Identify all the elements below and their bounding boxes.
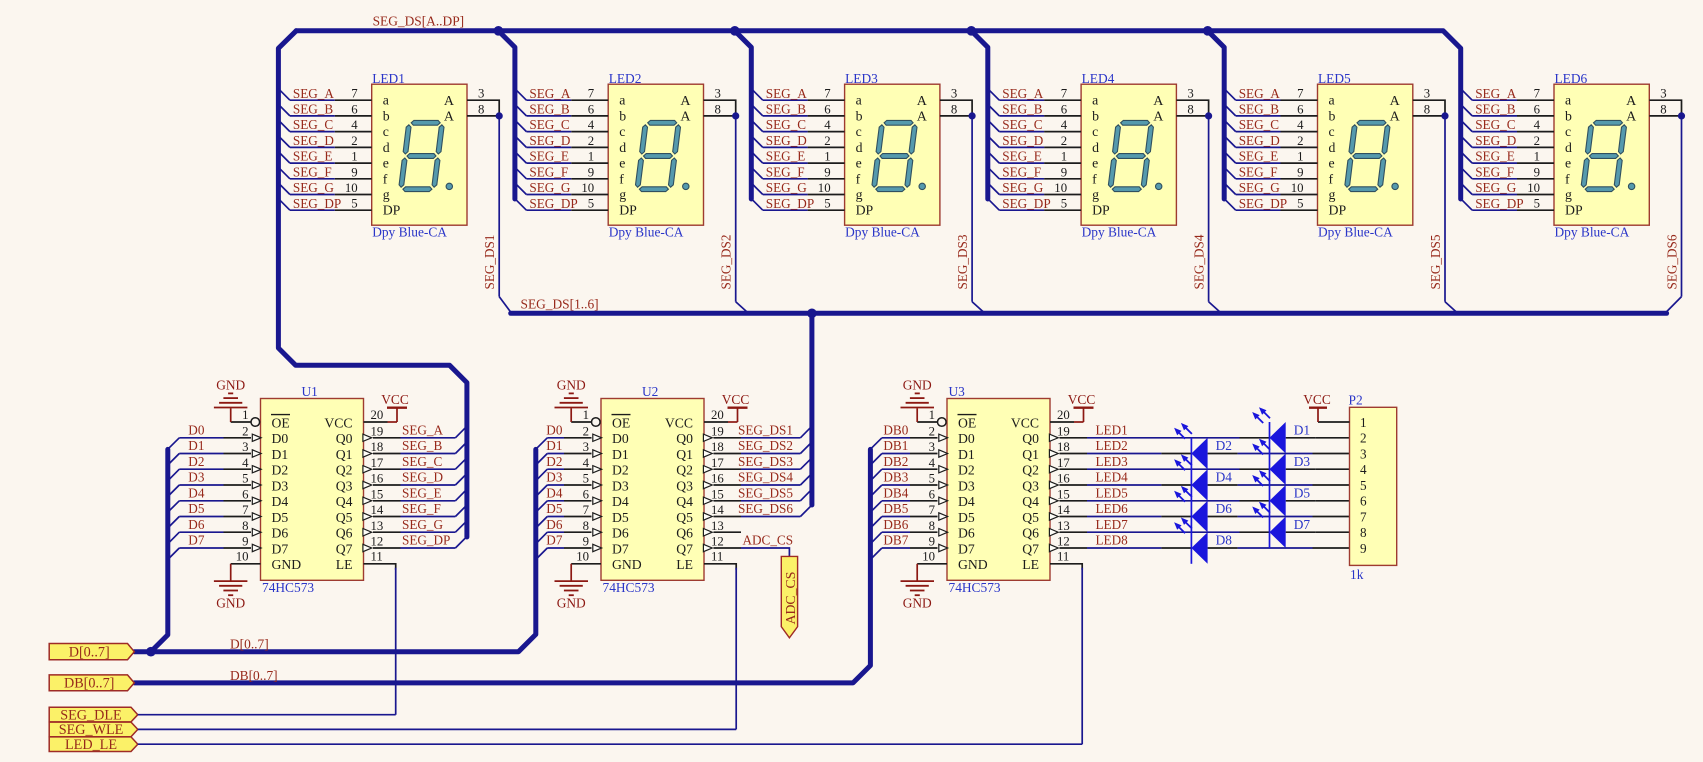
svg-text:D1: D1 xyxy=(188,438,204,453)
svg-text:D4: D4 xyxy=(546,485,563,500)
svg-text:A: A xyxy=(1153,110,1164,125)
svg-text:6: 6 xyxy=(929,487,936,501)
svg-text:10: 10 xyxy=(581,181,594,195)
svg-text:4: 4 xyxy=(351,118,358,132)
svg-text:A: A xyxy=(917,110,928,125)
svg-text:f: f xyxy=(1565,171,1570,186)
svg-text:VCC: VCC xyxy=(722,392,750,407)
svg-text:D5: D5 xyxy=(1294,485,1311,500)
svg-text:SEG_DS6: SEG_DS6 xyxy=(738,501,793,516)
svg-text:d: d xyxy=(1092,140,1099,155)
svg-text:1: 1 xyxy=(1061,150,1067,164)
svg-text:Q4: Q4 xyxy=(1022,494,1039,509)
svg-text:Q0: Q0 xyxy=(336,431,353,446)
svg-text:SEG_DLE: SEG_DLE xyxy=(60,707,121,723)
svg-text:SEG_DS1: SEG_DS1 xyxy=(482,235,497,290)
svg-text:2: 2 xyxy=(351,134,357,148)
svg-text:D7: D7 xyxy=(546,533,563,548)
svg-text:Q5: Q5 xyxy=(676,510,693,525)
svg-text:LED2: LED2 xyxy=(609,71,642,86)
svg-text:D5: D5 xyxy=(188,501,205,516)
svg-text:7: 7 xyxy=(351,87,358,101)
svg-text:SEG_A: SEG_A xyxy=(529,86,571,101)
svg-text:D4: D4 xyxy=(1216,470,1233,485)
svg-text:GND: GND xyxy=(958,557,988,572)
svg-text:LED3: LED3 xyxy=(845,71,878,86)
svg-text:Q3: Q3 xyxy=(336,478,353,493)
svg-text:1k: 1k xyxy=(1350,567,1364,582)
svg-text:4: 4 xyxy=(242,456,249,470)
svg-text:Q3: Q3 xyxy=(676,478,693,493)
svg-text:1: 1 xyxy=(588,150,594,164)
svg-text:SEG_WLE: SEG_WLE xyxy=(59,722,124,738)
svg-text:7: 7 xyxy=(1061,87,1068,101)
svg-text:3: 3 xyxy=(478,87,484,101)
svg-text:GND: GND xyxy=(216,595,245,610)
svg-text:4: 4 xyxy=(1297,118,1304,132)
svg-text:P2: P2 xyxy=(1349,392,1363,407)
svg-text:SEG_DS[1..6]: SEG_DS[1..6] xyxy=(521,296,599,311)
svg-text:D0: D0 xyxy=(958,431,975,446)
svg-text:3: 3 xyxy=(715,87,721,101)
svg-text:D2: D2 xyxy=(546,454,562,469)
svg-text:D0: D0 xyxy=(188,422,205,437)
svg-text:D1: D1 xyxy=(1294,422,1310,437)
svg-text:Dpy Blue-CA: Dpy Blue-CA xyxy=(1555,225,1630,240)
svg-text:10: 10 xyxy=(922,550,935,564)
svg-text:SEG_D: SEG_D xyxy=(293,133,334,148)
svg-text:74HC573: 74HC573 xyxy=(262,580,314,595)
svg-text:SEG_G: SEG_G xyxy=(1475,180,1517,195)
svg-text:LED7: LED7 xyxy=(1096,517,1129,532)
svg-text:SEG_E: SEG_E xyxy=(1002,149,1042,164)
svg-text:VCC: VCC xyxy=(381,392,409,407)
svg-text:2: 2 xyxy=(583,424,589,438)
svg-text:SEG_D: SEG_D xyxy=(1475,133,1516,148)
svg-text:1: 1 xyxy=(1360,415,1367,430)
svg-text:D1: D1 xyxy=(958,447,975,462)
svg-text:SEG_DS5: SEG_DS5 xyxy=(1428,234,1443,289)
svg-text:9: 9 xyxy=(588,165,594,179)
svg-text:e: e xyxy=(1565,156,1571,171)
svg-text:12: 12 xyxy=(1057,535,1070,549)
svg-text:6: 6 xyxy=(242,487,249,501)
svg-text:c: c xyxy=(619,124,625,139)
svg-text:Q6: Q6 xyxy=(676,526,693,541)
svg-text:D3: D3 xyxy=(272,478,289,493)
svg-text:3: 3 xyxy=(951,87,957,101)
svg-text:A: A xyxy=(1626,94,1637,109)
svg-text:10: 10 xyxy=(818,181,831,195)
svg-text:SEG_B: SEG_B xyxy=(1475,102,1516,117)
svg-text:ADC_CS: ADC_CS xyxy=(783,572,798,625)
svg-text:g: g xyxy=(383,187,390,202)
svg-text:SEG_G: SEG_G xyxy=(402,517,444,532)
svg-text:DB[0..7]: DB[0..7] xyxy=(64,676,114,692)
svg-text:Q1: Q1 xyxy=(336,447,353,462)
svg-text:c: c xyxy=(1329,124,1335,139)
svg-text:8: 8 xyxy=(1424,102,1430,116)
svg-text:SEG_E: SEG_E xyxy=(293,149,333,164)
svg-text:3: 3 xyxy=(242,440,248,454)
svg-text:4: 4 xyxy=(1360,462,1367,477)
svg-text:3: 3 xyxy=(1187,87,1193,101)
svg-text:a: a xyxy=(619,93,625,108)
svg-text:LE: LE xyxy=(676,557,693,572)
svg-text:10: 10 xyxy=(236,550,249,564)
svg-text:SEG_DP: SEG_DP xyxy=(402,533,450,548)
svg-text:Q0: Q0 xyxy=(676,431,693,446)
svg-text:D1: D1 xyxy=(272,447,289,462)
svg-text:SEG_DP: SEG_DP xyxy=(1475,196,1523,211)
svg-text:D0: D0 xyxy=(546,422,563,437)
svg-text:6: 6 xyxy=(1360,494,1367,509)
svg-text:9: 9 xyxy=(1061,165,1067,179)
svg-text:D2: D2 xyxy=(612,463,629,478)
svg-text:19: 19 xyxy=(711,424,724,438)
svg-text:SEG_B: SEG_B xyxy=(529,102,570,117)
svg-text:2: 2 xyxy=(1297,134,1303,148)
svg-text:OE: OE xyxy=(272,415,290,430)
svg-text:g: g xyxy=(1329,187,1336,202)
svg-text:DB4: DB4 xyxy=(883,485,908,500)
svg-text:6: 6 xyxy=(583,487,590,501)
svg-text:g: g xyxy=(1092,187,1099,202)
svg-text:A: A xyxy=(444,94,455,109)
svg-text:U2: U2 xyxy=(642,384,658,399)
svg-text:DP: DP xyxy=(1092,203,1110,218)
svg-text:8: 8 xyxy=(1360,525,1367,540)
svg-text:Dpy Blue-CA: Dpy Blue-CA xyxy=(845,225,920,240)
svg-text:D6: D6 xyxy=(1216,501,1233,516)
svg-text:VCC: VCC xyxy=(665,415,693,430)
svg-text:12: 12 xyxy=(711,535,724,549)
svg-text:D7: D7 xyxy=(272,541,289,556)
svg-text:9: 9 xyxy=(242,535,248,549)
svg-text:d: d xyxy=(619,140,626,155)
svg-text:5: 5 xyxy=(929,472,935,486)
svg-text:Dpy Blue-CA: Dpy Blue-CA xyxy=(609,225,684,240)
svg-text:D3: D3 xyxy=(1294,454,1311,469)
svg-text:LED1: LED1 xyxy=(1096,422,1128,437)
svg-text:7: 7 xyxy=(242,503,249,517)
svg-text:GND: GND xyxy=(272,557,302,572)
svg-text:c: c xyxy=(856,124,862,139)
svg-text:Q2: Q2 xyxy=(336,463,353,478)
svg-text:A: A xyxy=(1390,94,1401,109)
svg-text:D5: D5 xyxy=(272,510,289,525)
svg-text:8: 8 xyxy=(583,519,589,533)
svg-text:D1: D1 xyxy=(546,438,562,453)
svg-text:D2: D2 xyxy=(272,463,289,478)
svg-text:Q4: Q4 xyxy=(336,494,353,509)
svg-text:SEG_C: SEG_C xyxy=(1475,117,1516,132)
svg-text:10: 10 xyxy=(1527,181,1540,195)
svg-text:DB5: DB5 xyxy=(883,501,908,516)
svg-text:D6: D6 xyxy=(272,526,289,541)
svg-text:D7: D7 xyxy=(958,541,975,556)
svg-text:D3: D3 xyxy=(612,478,629,493)
svg-text:5: 5 xyxy=(583,472,589,486)
svg-text:SEG_F: SEG_F xyxy=(293,164,332,179)
svg-text:DB[0..7]: DB[0..7] xyxy=(230,668,278,683)
svg-text:2: 2 xyxy=(824,134,830,148)
svg-text:1: 1 xyxy=(351,150,357,164)
svg-text:Q2: Q2 xyxy=(1022,463,1039,478)
svg-text:d: d xyxy=(383,140,390,155)
svg-text:LED1: LED1 xyxy=(372,71,405,86)
svg-text:c: c xyxy=(383,124,389,139)
svg-text:4: 4 xyxy=(824,118,831,132)
svg-text:10: 10 xyxy=(1054,181,1067,195)
svg-text:A: A xyxy=(1153,94,1164,109)
svg-text:DP: DP xyxy=(1565,203,1583,218)
svg-text:Q4: Q4 xyxy=(676,494,693,509)
svg-text:17: 17 xyxy=(711,456,724,470)
svg-text:VCC: VCC xyxy=(1068,392,1096,407)
svg-text:SEG_DS3: SEG_DS3 xyxy=(955,234,970,289)
svg-text:4: 4 xyxy=(1534,118,1541,132)
svg-text:Dpy Blue-CA: Dpy Blue-CA xyxy=(372,225,447,240)
svg-text:13: 13 xyxy=(1057,519,1070,533)
svg-text:5: 5 xyxy=(242,472,248,486)
svg-text:2: 2 xyxy=(929,424,935,438)
svg-text:SEG_C: SEG_C xyxy=(293,117,334,132)
svg-text:SEG_G: SEG_G xyxy=(1002,180,1044,195)
svg-text:1: 1 xyxy=(1297,150,1303,164)
svg-text:9: 9 xyxy=(929,535,935,549)
svg-text:a: a xyxy=(383,93,389,108)
svg-text:6: 6 xyxy=(1534,102,1541,116)
svg-text:g: g xyxy=(619,187,626,202)
svg-text:c: c xyxy=(1565,124,1571,139)
svg-text:SEG_E: SEG_E xyxy=(402,485,442,500)
svg-text:LED4: LED4 xyxy=(1096,470,1129,485)
svg-text:c: c xyxy=(1092,124,1098,139)
svg-text:Dpy Blue-CA: Dpy Blue-CA xyxy=(1082,225,1157,240)
svg-text:LE: LE xyxy=(1022,557,1039,572)
svg-text:11: 11 xyxy=(1057,550,1069,564)
svg-text:LED8: LED8 xyxy=(1096,533,1129,548)
svg-text:SEG_DS4: SEG_DS4 xyxy=(1192,234,1207,289)
svg-text:SEG_B: SEG_B xyxy=(766,102,807,117)
svg-text:D4: D4 xyxy=(612,494,629,509)
svg-text:DP: DP xyxy=(383,203,401,218)
svg-text:6: 6 xyxy=(824,102,831,116)
svg-text:D3: D3 xyxy=(546,470,563,485)
svg-text:17: 17 xyxy=(1057,456,1070,470)
svg-text:8: 8 xyxy=(715,102,721,116)
svg-text:A: A xyxy=(444,110,455,125)
svg-text:A: A xyxy=(1390,110,1401,125)
svg-text:SEG_A: SEG_A xyxy=(1475,86,1517,101)
svg-text:2: 2 xyxy=(1061,134,1067,148)
svg-text:LED3: LED3 xyxy=(1096,454,1129,469)
svg-text:DP: DP xyxy=(856,203,874,218)
svg-text:Q7: Q7 xyxy=(336,541,353,556)
svg-text:14: 14 xyxy=(1057,503,1070,517)
svg-text:ADC_CS: ADC_CS xyxy=(743,533,794,548)
svg-text:DB6: DB6 xyxy=(883,517,908,532)
svg-text:Q7: Q7 xyxy=(676,541,693,556)
svg-text:LE: LE xyxy=(336,557,353,572)
svg-text:SEG_DS6: SEG_DS6 xyxy=(1665,234,1680,289)
svg-text:LED2: LED2 xyxy=(1096,438,1128,453)
svg-text:D4: D4 xyxy=(958,494,975,509)
svg-text:SEG_C: SEG_C xyxy=(402,454,443,469)
svg-text:SEG_E: SEG_E xyxy=(1475,149,1515,164)
svg-text:D[0..7]: D[0..7] xyxy=(69,644,110,660)
svg-text:SEG_A: SEG_A xyxy=(1239,86,1281,101)
svg-text:A: A xyxy=(1626,110,1637,125)
svg-text:74HC573: 74HC573 xyxy=(949,580,1001,595)
svg-text:SEG_DP: SEG_DP xyxy=(529,196,577,211)
svg-text:SEG_DS5: SEG_DS5 xyxy=(738,485,793,500)
svg-text:LED5: LED5 xyxy=(1096,485,1129,500)
svg-text:Q6: Q6 xyxy=(336,526,353,541)
svg-text:A: A xyxy=(680,94,691,109)
svg-text:9: 9 xyxy=(1534,165,1540,179)
svg-text:D6: D6 xyxy=(188,517,205,532)
svg-text:SEG_B: SEG_B xyxy=(1002,102,1043,117)
svg-text:19: 19 xyxy=(371,424,384,438)
svg-text:DB2: DB2 xyxy=(883,454,908,469)
svg-text:8: 8 xyxy=(951,102,957,116)
svg-text:DB3: DB3 xyxy=(883,470,908,485)
svg-text:b: b xyxy=(1565,108,1572,123)
svg-text:3: 3 xyxy=(583,440,589,454)
svg-text:D6: D6 xyxy=(546,517,563,532)
svg-text:e: e xyxy=(619,156,625,171)
svg-text:12: 12 xyxy=(371,535,384,549)
svg-text:5: 5 xyxy=(588,197,594,211)
svg-text:4: 4 xyxy=(1061,118,1068,132)
svg-text:f: f xyxy=(1329,171,1334,186)
svg-text:18: 18 xyxy=(371,440,384,454)
svg-text:6: 6 xyxy=(351,102,358,116)
svg-text:14: 14 xyxy=(371,503,384,517)
svg-text:7: 7 xyxy=(583,503,590,517)
svg-text:20: 20 xyxy=(711,408,724,422)
svg-text:7: 7 xyxy=(1360,509,1367,524)
svg-text:A: A xyxy=(917,94,928,109)
svg-text:8: 8 xyxy=(1660,102,1666,116)
svg-text:SEG_DS[A..DP]: SEG_DS[A..DP] xyxy=(373,13,465,28)
svg-text:5: 5 xyxy=(351,197,357,211)
svg-text:Q6: Q6 xyxy=(1022,526,1039,541)
svg-text:20: 20 xyxy=(371,408,384,422)
svg-text:VCC: VCC xyxy=(324,415,352,430)
svg-text:6: 6 xyxy=(1061,102,1068,116)
svg-text:e: e xyxy=(383,156,389,171)
svg-text:SEG_D: SEG_D xyxy=(1002,133,1043,148)
svg-text:15: 15 xyxy=(711,487,724,501)
svg-text:SEG_C: SEG_C xyxy=(1239,117,1280,132)
svg-text:GND: GND xyxy=(557,595,586,610)
svg-text:A: A xyxy=(680,110,691,125)
svg-text:9: 9 xyxy=(1360,541,1367,556)
svg-text:SEG_A: SEG_A xyxy=(402,422,444,437)
svg-text:Q2: Q2 xyxy=(676,463,693,478)
svg-text:10: 10 xyxy=(345,181,358,195)
svg-text:b: b xyxy=(383,108,390,123)
svg-text:g: g xyxy=(856,187,863,202)
svg-text:Q1: Q1 xyxy=(676,447,693,462)
svg-text:5: 5 xyxy=(1297,197,1303,211)
svg-text:SEG_F: SEG_F xyxy=(1239,164,1278,179)
svg-text:f: f xyxy=(856,171,861,186)
svg-text:SEG_DP: SEG_DP xyxy=(293,196,341,211)
svg-text:9: 9 xyxy=(583,535,589,549)
svg-text:3: 3 xyxy=(1360,446,1367,461)
svg-text:9: 9 xyxy=(351,165,357,179)
svg-text:b: b xyxy=(1092,108,1099,123)
svg-text:13: 13 xyxy=(711,519,724,533)
svg-text:14: 14 xyxy=(711,503,724,517)
svg-text:8: 8 xyxy=(478,102,484,116)
svg-text:3: 3 xyxy=(929,440,935,454)
svg-text:1: 1 xyxy=(242,408,248,422)
svg-text:SEG_G: SEG_G xyxy=(766,180,808,195)
svg-text:SEG_F: SEG_F xyxy=(1475,164,1514,179)
svg-text:SEG_DS1: SEG_DS1 xyxy=(738,422,793,437)
svg-text:SEG_DP: SEG_DP xyxy=(766,196,814,211)
svg-text:g: g xyxy=(1565,187,1572,202)
svg-text:D5: D5 xyxy=(958,510,975,525)
svg-text:SEG_DS2: SEG_DS2 xyxy=(719,235,734,290)
svg-text:20: 20 xyxy=(1057,408,1070,422)
svg-text:2: 2 xyxy=(1360,431,1367,446)
svg-text:d: d xyxy=(1329,140,1336,155)
svg-text:SEG_G: SEG_G xyxy=(529,180,571,195)
svg-text:D7: D7 xyxy=(1294,517,1311,532)
svg-text:D3: D3 xyxy=(958,478,975,493)
svg-text:3: 3 xyxy=(1660,87,1666,101)
svg-text:1: 1 xyxy=(1534,150,1540,164)
svg-text:5: 5 xyxy=(1534,197,1540,211)
svg-text:7: 7 xyxy=(824,87,831,101)
svg-text:e: e xyxy=(1329,156,1335,171)
svg-text:2: 2 xyxy=(242,424,248,438)
svg-text:a: a xyxy=(856,93,862,108)
svg-text:4: 4 xyxy=(929,456,936,470)
svg-text:8: 8 xyxy=(242,519,248,533)
svg-text:SEG_DP: SEG_DP xyxy=(1239,196,1287,211)
svg-text:7: 7 xyxy=(588,87,595,101)
svg-text:SEG_B: SEG_B xyxy=(293,102,334,117)
svg-text:SEG_E: SEG_E xyxy=(766,149,806,164)
svg-text:DB1: DB1 xyxy=(883,438,908,453)
svg-text:DP: DP xyxy=(619,203,637,218)
svg-text:4: 4 xyxy=(588,118,595,132)
svg-text:SEG_E: SEG_E xyxy=(529,149,569,164)
svg-text:1: 1 xyxy=(583,408,589,422)
svg-text:19: 19 xyxy=(1057,424,1070,438)
svg-text:e: e xyxy=(1092,156,1098,171)
svg-text:GND: GND xyxy=(216,377,245,392)
svg-text:SEG_DS3: SEG_DS3 xyxy=(738,454,793,469)
svg-text:D[0..7]: D[0..7] xyxy=(230,637,269,652)
svg-text:Q7: Q7 xyxy=(1022,541,1039,556)
svg-text:SEG_A: SEG_A xyxy=(1002,86,1044,101)
svg-text:b: b xyxy=(856,108,863,123)
svg-text:LED4: LED4 xyxy=(1082,71,1115,86)
svg-text:D0: D0 xyxy=(612,431,629,446)
svg-text:16: 16 xyxy=(711,472,724,486)
svg-text:Q3: Q3 xyxy=(1022,478,1039,493)
svg-text:D6: D6 xyxy=(612,526,629,541)
svg-text:SEG_B: SEG_B xyxy=(402,438,443,453)
